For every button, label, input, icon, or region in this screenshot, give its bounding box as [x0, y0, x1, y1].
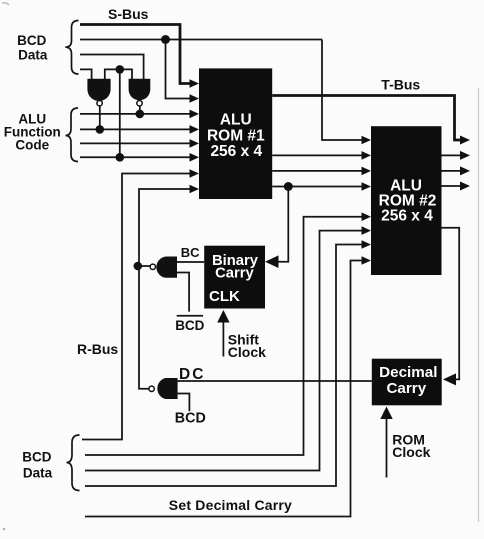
wire Shift Clock stub — [222, 321, 224, 357]
arrowhead Shift Clock up into Binary Carry — [217, 310, 229, 323]
arrowhead into ROM2 input 1 — [362, 136, 372, 145]
brace BCD Data bottom — [67, 435, 80, 491]
arrowhead into Binary Carry right side — [265, 255, 279, 268]
svg-text:CLK: CLK — [209, 288, 240, 305]
wire carry branch down into Binary Carry right input — [274, 187, 289, 262]
svg-text:256 x 4: 256 x 4 — [381, 208, 433, 225]
node junction dot net X on function line 4 — [116, 153, 125, 162]
wire Set Decimal Carry line up into ROM2 input 8 — [85, 261, 363, 517]
arrowhead ROM2 output 1 — [460, 151, 470, 160]
node junction dot BC gate output on vertical — [134, 262, 143, 271]
wire ROM1 output 2 to ROM2 input 2 — [272, 154, 362, 156]
wire ALU function code line 3 — [80, 142, 191, 144]
arrowhead into ROM1 input 1 — [190, 79, 200, 88]
wire gated-carry vertical into ROM1 input 8 — [139, 189, 191, 389]
svg-text:Decimal: Decimal — [379, 364, 437, 381]
wire S-Bus horizontal+vertical into ROM1 input 1 — [80, 25, 190, 84]
arrowhead into ROM1 input 3 — [190, 110, 200, 119]
arrowhead into ROM1 input 4 — [190, 125, 200, 134]
box Decimal Carry — [372, 359, 442, 406]
wire ALU function code line 2 — [80, 128, 191, 130]
arrowhead into ROM2 input 3 — [362, 167, 372, 176]
arrowhead into ROM2 input 4 — [362, 182, 372, 191]
scan speck bottom-left — [3, 528, 5, 530]
svg-text:Data: Data — [18, 48, 48, 63]
wire ROM2 output 1 — [442, 154, 462, 156]
svg-text:Clock: Clock — [228, 344, 266, 360]
node junction dot on BCD line 2 — [161, 35, 170, 44]
wire T-Bus from ROM1 output 1 — [272, 96, 461, 141]
nand gate BC (left-pointing) — [150, 257, 177, 278]
wire ROM2 output 2 — [442, 170, 462, 172]
wire DC gate input 1 from Decimal Carry box — [178, 380, 372, 382]
arrowhead into Decimal Carry right side — [443, 373, 456, 385]
svg-text:Code: Code — [15, 138, 49, 153]
arrowhead ROM2 output 2 — [460, 166, 470, 175]
wire ROM1 output 3 to ROM2 input 3 — [272, 170, 362, 172]
wire net X segment tying G1 right input and G2 left input — [105, 69, 132, 79]
nand gate DC (left-pointing) — [149, 378, 178, 399]
svg-text:ALU: ALU — [220, 112, 252, 129]
svg-text:BCD: BCD — [175, 411, 206, 427]
node junction dot G1 output on function line 2 — [96, 125, 105, 134]
wire BC gate output from junction to bubble — [138, 265, 151, 267]
wire bottom BCD line 2 up into ROM2 input 5 — [85, 217, 363, 455]
wire BC gate input 1 from Binary Carry box — [177, 261, 204, 263]
wire R-Bus vertical from bottom BCD line 1 into ROM1 input 7 — [82, 174, 191, 440]
brace ALU Function Code — [66, 108, 79, 162]
svg-text:BCD: BCD — [17, 33, 46, 48]
wire ROM2 output 3 — [442, 185, 462, 187]
wire gate G1 output stub — [99, 106, 101, 129]
wire ROM Clock stub — [386, 418, 388, 478]
wire ROM1 output 4 to ROM2 input 4 — [272, 186, 362, 188]
nand gate G1 (down-pointing) — [87, 79, 110, 106]
box ALU ROM #1 — [199, 68, 272, 199]
arrowhead ROM Clock up into Decimal Carry — [380, 407, 392, 420]
arrowhead into ROM2 input 7 — [362, 240, 372, 249]
scan artifact faint vertical line — [478, 88, 480, 522]
svg-text:Set Decimal Carry: Set Decimal Carry — [169, 497, 292, 513]
svg-text:ROM #1: ROM #1 — [207, 128, 265, 145]
arrowhead T-Bus output — [460, 136, 470, 145]
wire BCD data line 2 — [80, 39, 322, 41]
svg-text:T-Bus: T-Bus — [381, 76, 420, 92]
svg-text:S-Bus: S-Bus — [108, 6, 149, 22]
svg-text:BCD: BCD — [22, 450, 51, 465]
wire net X vertical down to function code line 4 — [119, 69, 121, 157]
arrowhead into ROM1 input 2 — [190, 94, 200, 103]
wire bottom BCD line 3 up into ROM2 input 6 — [85, 231, 363, 471]
svg-text:Carry: Carry — [386, 380, 426, 397]
arrowhead into ROM1 input 5 — [190, 139, 200, 148]
brace BCD Data top — [65, 21, 78, 75]
wire line2 vertical down into ROM2 input 1 — [322, 40, 363, 141]
svg-text:Data: Data — [23, 466, 53, 481]
arrowhead into ROM1 input 8 — [190, 185, 200, 194]
wire ALU function code line 1 — [80, 113, 191, 115]
arrowhead into ROM2 input 6 — [362, 226, 372, 235]
scan speck top-left — [2, 3, 9, 5]
svg-text:DC: DC — [179, 366, 205, 383]
wire branch from line2 down into ROM1 input 2 — [166, 40, 191, 99]
wire DC gate input 2 stub to BCD — [178, 394, 190, 412]
svg-text:R-Bus: R-Bus — [77, 341, 118, 357]
wire BCD data line 4 into gate G1 left input — [80, 69, 92, 79]
node junction dot G2 output on function line 1 — [136, 110, 145, 119]
svg-text:Carry: Carry — [215, 266, 254, 282]
node junction dot net X on line 4 — [116, 65, 125, 74]
arrowhead into ROM2 input 8 — [362, 256, 372, 265]
svg-text:BC: BC — [181, 245, 200, 260]
arrowhead into ROM1 input 6 — [190, 153, 200, 162]
overline of BCD-bar label — [177, 315, 203, 317]
nand gate G2 (down-pointing) — [129, 79, 151, 106]
svg-text:256 x 4: 256 x 4 — [210, 143, 262, 160]
wire ROM2 output 4 routed to Decimal Carry right input — [442, 228, 460, 380]
node junction dot carry branch on ROM1 output 4 — [284, 182, 293, 191]
arrowhead ROM2 output 3 — [460, 182, 470, 191]
wire ALU function code line 4 — [80, 156, 191, 158]
svg-text:Clock: Clock — [392, 444, 430, 460]
arrowhead into ROM1 input 7 — [190, 169, 200, 178]
wire BC gate input 2 stub to BCD-bar — [177, 273, 189, 312]
arrowhead into ROM2 input 5 — [362, 212, 372, 221]
wire BCD data line 3 into gate G2 right input — [80, 55, 144, 80]
wire gate G2 output stub — [139, 106, 141, 114]
box Binary Carry — [204, 246, 265, 309]
arrowhead into ROM2 input 2 — [362, 151, 372, 160]
wire bottom BCD line 4 up into ROM2 input 7 — [85, 245, 363, 487]
box ALU ROM #2 — [371, 126, 442, 275]
svg-text:BCD: BCD — [175, 318, 204, 333]
